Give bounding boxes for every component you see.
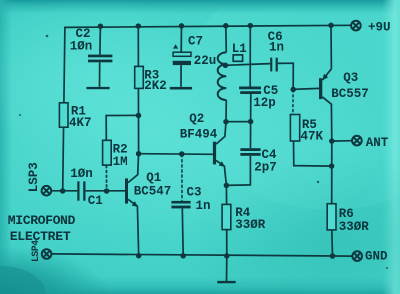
inductor L1 tapped coil xyxy=(218,26,247,122)
terminal +9V xyxy=(351,21,390,35)
resistor R3 xyxy=(135,26,167,115)
capacitor C3 xyxy=(171,154,210,256)
svg-text:12p: 12p xyxy=(253,96,276,110)
svg-text:33ØR: 33ØR xyxy=(235,218,266,232)
wire node C to Q3 base xyxy=(293,88,319,89)
svg-text:ELECTRET: ELECTRET xyxy=(10,229,71,244)
capacitor C5 xyxy=(239,26,278,122)
svg-text:C3: C3 xyxy=(187,186,202,200)
node L1 tap xyxy=(223,63,229,69)
resistor R1 xyxy=(59,103,91,130)
node C Q3 base xyxy=(290,87,296,93)
svg-text:22u: 22u xyxy=(194,54,217,68)
svg-text:33ØR: 33ØR xyxy=(339,220,370,234)
terminal LSP3 xyxy=(27,162,51,195)
svg-text:1M: 1M xyxy=(113,155,128,169)
node ANT xyxy=(329,138,335,144)
terminal ANT xyxy=(352,136,389,150)
node A R3/R2 xyxy=(136,113,142,119)
svg-text:4K7: 4K7 xyxy=(69,116,92,130)
wire Q1 collector node to Q2 base xyxy=(139,153,213,156)
svg-text:C7: C7 xyxy=(188,35,203,49)
node R2-Q1 base xyxy=(104,188,110,194)
wire bottom ground rail xyxy=(52,254,352,256)
node gnd C3 xyxy=(180,253,186,258)
svg-text:1Øn: 1Øn xyxy=(70,167,93,181)
wire Q3 collector to ANT and R6 xyxy=(332,141,352,204)
node gnd R6 xyxy=(330,253,336,259)
node rail-L1 xyxy=(223,23,229,29)
node R5-collector xyxy=(329,163,335,169)
node gnd R4 xyxy=(224,253,230,259)
capacitor C7 electrolytic 22u xyxy=(170,26,217,90)
capacitor C4 xyxy=(226,122,277,186)
wire left branch through R1 (rail to LSP3 node) xyxy=(63,27,65,191)
transistor Q1 BC547 xyxy=(86,154,172,256)
svg-text:Q1: Q1 xyxy=(146,171,161,185)
node rail-C5 xyxy=(248,23,254,29)
svg-text:2p7: 2p7 xyxy=(254,161,277,175)
svg-text:BC547: BC547 xyxy=(134,185,172,199)
svg-text:47K: 47K xyxy=(301,130,324,144)
node tank right xyxy=(248,119,254,125)
resistor R6 xyxy=(327,204,369,256)
node rail-R3 xyxy=(136,23,142,29)
node LSP3-R1 xyxy=(60,188,65,194)
svg-text:1n: 1n xyxy=(196,199,211,213)
wire tank node (L1 bottom to C5/C4) xyxy=(226,121,251,123)
transistor Q3 BC557 xyxy=(319,25,369,141)
wire L1 tap to C6 xyxy=(225,64,270,66)
svg-text:MICROFOND: MICROFOND xyxy=(8,213,76,228)
svg-text:Q3: Q3 xyxy=(343,71,358,85)
wire top +9V rail xyxy=(65,25,351,27)
node rail-C2 xyxy=(98,23,104,29)
resistor R2 with feed wires xyxy=(103,115,139,190)
node rail-C7 xyxy=(179,23,185,29)
ground symbol xyxy=(217,256,235,283)
svg-text:Q2: Q2 xyxy=(189,112,204,126)
svg-text:ANT: ANT xyxy=(366,136,389,150)
svg-text:2K2: 2K2 xyxy=(144,79,167,93)
wire node A to node B (R3 bottom to Q1 collector) xyxy=(138,115,140,153)
capacitor C2 xyxy=(70,26,113,89)
terminal LSP4 xyxy=(30,240,52,262)
node Q2 emitter xyxy=(224,183,230,189)
terminal GND xyxy=(352,250,388,264)
svg-text:C1: C1 xyxy=(88,194,103,208)
svg-text:GND: GND xyxy=(365,250,388,264)
svg-text:1Øn: 1Øn xyxy=(70,40,93,54)
svg-text:BC557: BC557 xyxy=(331,87,369,101)
resistor R4 xyxy=(222,185,266,256)
scan specks xyxy=(19,35,388,269)
svg-text:LSP3: LSP3 xyxy=(27,162,41,192)
svg-text:BF494: BF494 xyxy=(180,128,218,142)
node gnd Q1 xyxy=(136,253,142,259)
capacitor C6 xyxy=(268,30,294,89)
node C3 top xyxy=(179,151,185,157)
node tank left xyxy=(223,119,229,125)
node B Q1 collector xyxy=(136,151,142,157)
svg-text:+9U: +9U xyxy=(368,21,391,35)
resistor R5 xyxy=(290,89,331,166)
transistor Q2 BF494 xyxy=(180,112,227,185)
capacitor C1 xyxy=(52,167,103,208)
label MICROFOND ELECTRET xyxy=(8,213,76,244)
svg-text:L1: L1 xyxy=(232,42,247,56)
node rail-Q3 xyxy=(328,23,334,29)
svg-text:1n: 1n xyxy=(269,40,284,54)
